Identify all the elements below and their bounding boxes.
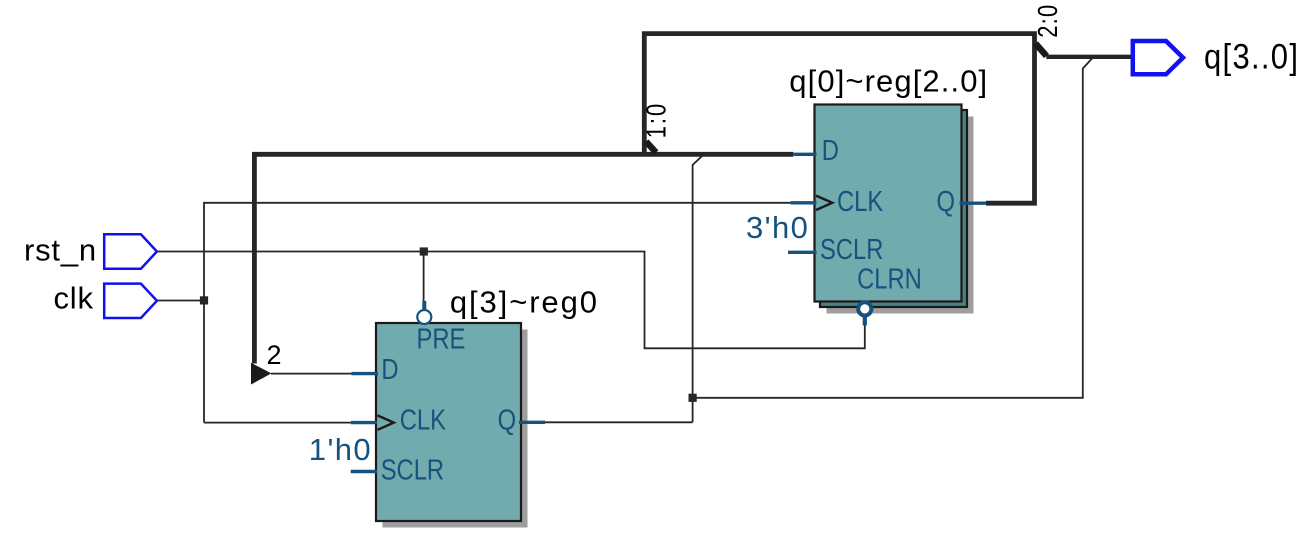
svg-text:CLK: CLK (837, 185, 884, 218)
svg-text:D: D (822, 134, 839, 167)
svg-text:Q: Q (937, 185, 955, 218)
svg-text:rst_n: rst_n (24, 232, 97, 267)
svg-text:D: D (381, 353, 398, 386)
svg-text:CLRN: CLRN (857, 262, 922, 295)
svg-text:SCLR: SCLR (381, 453, 444, 486)
svg-text:clk: clk (54, 280, 94, 315)
svg-text:2: 2 (267, 340, 282, 370)
svg-text:PRE: PRE (417, 322, 466, 355)
svg-text:Q: Q (498, 403, 516, 436)
svg-text:2:0: 2:0 (1033, 4, 1064, 38)
svg-text:q[0]~reg[2..0]: q[0]~reg[2..0] (789, 64, 988, 99)
svg-text:q[3]~reg0: q[3]~reg0 (450, 285, 599, 320)
svg-text:CLK: CLK (400, 403, 447, 436)
svg-text:1:0: 1:0 (641, 102, 672, 139)
svg-text:SCLR: SCLR (820, 233, 883, 266)
svg-text:1'h0: 1'h0 (309, 432, 372, 467)
svg-text:q[3..0]: q[3..0] (1204, 37, 1299, 76)
svg-text:3'h0: 3'h0 (746, 210, 809, 245)
